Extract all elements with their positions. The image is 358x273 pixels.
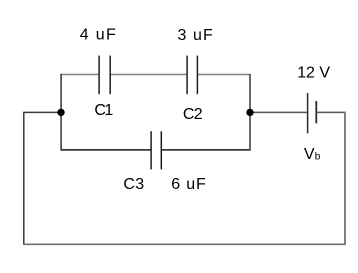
wire C2 to node B [197,74,250,76]
junction node B [246,109,253,116]
wire right outer vertical [344,112,346,245]
wire left outer vertical [23,112,25,245]
svg-text:4 uF: 4 uF [80,27,116,44]
capacitor C3 [151,131,161,169]
wire battery to right outer [316,111,345,113]
capacitor C1 [99,56,110,95]
wire C1 to C2 [110,74,187,76]
svg-text:12 V: 12 V [297,64,330,81]
svg-text:6 uF: 6 uF [171,176,206,193]
svg-text:C1: C1 [94,102,113,119]
wire node B to battery [250,111,307,113]
wire bottom [23,243,346,245]
junction node A [57,109,64,116]
svg-text:3 uF: 3 uF [178,27,214,44]
wire right inner vertical (top row to middle row) [249,74,251,150]
capacitor C2 [187,56,197,95]
wire left outer horizontal [24,111,61,113]
wire C3 to node B [161,149,250,151]
wire middle-left (node A to C3) [61,149,152,151]
wire top-left (node A to C1) [61,74,99,76]
battery Vb [308,93,317,133]
svg-text:C3: C3 [123,176,144,193]
svg-text:C2: C2 [183,106,203,123]
wire left inner vertical (top row to middle row) [60,74,62,150]
